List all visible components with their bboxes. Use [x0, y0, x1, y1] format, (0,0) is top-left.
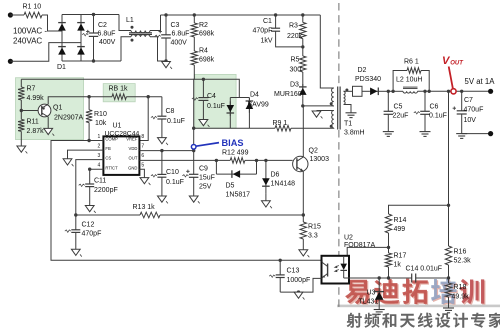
pin3 CS wire: [76, 160, 104, 215]
pin4 RT/CT wire: [90, 169, 104, 184]
ground (R15): [299, 250, 308, 256]
svg-text:L1: L1: [126, 17, 134, 24]
resistor R9: [275, 125, 291, 131]
svg-text:220k: 220k: [287, 33, 303, 40]
capacitor C13: [279, 259, 282, 262]
svg-text:C11: C11: [94, 177, 106, 184]
pin2 FB wire to ground: [68, 150, 104, 159]
bias return wire with R9: [192, 127, 195, 130]
capacitor C11: [85, 183, 94, 185]
dual diode D4 BAV99: [230, 97, 249, 99]
svg-text:R14: R14: [394, 217, 407, 224]
svg-text:5V at 1A: 5V at 1A: [465, 77, 496, 86]
resistor R1: [10, 14, 24, 16]
bottom rail from bridge: [81, 60, 121, 62]
pin7 VDD wire: [139, 150, 193, 152]
svg-text:22uF: 22uF: [393, 112, 409, 119]
watermark line 2: gray CJK text: [347, 313, 362, 328]
ground (C8): [158, 138, 167, 144]
svg-text:R10: R10: [94, 111, 107, 118]
svg-text:D1: D1: [57, 64, 66, 71]
svg-text:3: 3: [98, 153, 101, 159]
svg-text:499: 499: [394, 226, 406, 233]
resistor RB: [87, 95, 90, 98]
svg-text:VDD: VDD: [129, 146, 138, 151]
svg-text:GND: GND: [128, 165, 137, 170]
wire secondary to D2: [344, 90, 353, 92]
svg-text:R15: R15: [308, 224, 321, 231]
bridge diode bottom-right: [80, 44, 82, 58]
ground (D6): [262, 201, 271, 207]
ground (C6): [420, 131, 431, 133]
capacitor C1: [274, 13, 277, 16]
node R7/R11/Q1 base: [20, 100, 22, 119]
capacitor C12: [75, 215, 77, 230]
svg-text:R18: R18: [454, 284, 467, 291]
pin6 OUT wire: [139, 159, 230, 161]
svg-text:C5: C5: [394, 103, 403, 110]
svg-text:OUT: OUT: [450, 60, 464, 66]
bridge diode top-left: [61, 20, 63, 34]
resistor R16: [445, 246, 451, 265]
svg-text:R16: R16: [454, 249, 467, 256]
resistor R2: [193, 13, 196, 16]
svg-text:1N4148: 1N4148: [271, 180, 296, 187]
input terminal bottom: [8, 59, 13, 64]
svg-text:U2: U2: [344, 235, 353, 242]
svg-text:C12: C12: [82, 221, 95, 228]
svg-text:6.8uF: 6.8uF: [172, 31, 190, 38]
resistor R14: [385, 214, 391, 233]
ground (C12): [71, 249, 80, 255]
ground (opto emitter): [294, 292, 303, 298]
capacitor C6: [423, 90, 426, 93]
svg-text:1N5817: 1N5817: [226, 192, 251, 199]
transformer T1 primary winding: [332, 88, 334, 106]
opto emitter return: [280, 278, 321, 292]
green highlight box 3 (C4/D4 bias): [195, 74, 236, 128]
svg-text:0.1uF: 0.1uF: [167, 118, 185, 125]
wire R4 down to VDD node: [193, 65, 196, 145]
pin5 GND wire: [139, 169, 144, 177]
ground (C5): [383, 131, 394, 133]
svg-text:3.3: 3.3: [308, 233, 318, 240]
svg-text:R1 10: R1 10: [23, 4, 42, 11]
svg-text:400V: 400V: [99, 39, 116, 46]
VOUT annotation: [449, 67, 453, 89]
resistor R7: [20, 79, 22, 87]
svg-text:470pF: 470pF: [253, 27, 273, 34]
ground (C10): [158, 196, 167, 202]
wire bottom input: [10, 43, 81, 62]
svg-text:R11: R11: [27, 119, 39, 126]
green highlight box 2 (RB): [103, 84, 135, 102]
transformer core: [337, 87, 339, 130]
svg-text:R6 1: R6 1: [404, 58, 419, 65]
ground (C7/output return): [456, 133, 467, 135]
svg-text:0.1uF: 0.1uF: [166, 179, 184, 186]
svg-text:R3: R3: [289, 23, 298, 30]
top HV rail: [81, 14, 119, 16]
svg-text:RB 1k: RB 1k: [109, 86, 129, 93]
capacitor C14: [411, 274, 413, 283]
svg-text:TL431: TL431: [359, 298, 379, 305]
svg-text:10V: 10V: [464, 117, 477, 124]
svg-text:8: 8: [141, 134, 144, 140]
svg-text:T1: T1: [344, 121, 352, 128]
resistor R17: [385, 253, 391, 267]
resistor R3: [301, 13, 304, 16]
transformer T1 bias winding: [332, 111, 334, 129]
ground (C11): [85, 206, 94, 212]
resistor R18: [445, 283, 451, 297]
opto LED: [343, 257, 345, 264]
diode D3 MUR160: [302, 72, 304, 87]
svg-text:C4: C4: [207, 93, 216, 100]
output terminal +: [488, 89, 493, 94]
svg-text:300: 300: [290, 66, 302, 73]
resistor R11: [18, 119, 24, 131]
ground (secondary): [346, 112, 357, 114]
svg-text:R2: R2: [199, 22, 208, 29]
transformer T1 secondary winding: [344, 91, 346, 104]
capacitor C2: [92, 13, 95, 16]
output return wire: [462, 133, 491, 135]
Q2 collector wire: [302, 106, 304, 157]
svg-text:PDS340: PDS340: [355, 76, 381, 83]
svg-text:R13 1k: R13 1k: [133, 204, 156, 211]
svg-text:CS: CS: [105, 156, 111, 161]
svg-text:4.99k: 4.99k: [27, 95, 45, 102]
ground (C9): [189, 196, 198, 202]
svg-text:25V: 25V: [199, 183, 212, 190]
svg-text:698k: 698k: [199, 57, 215, 64]
resistor R4: [193, 37, 195, 51]
svg-text:2N2907A: 2N2907A: [54, 115, 84, 122]
svg-text:49.9k: 49.9k: [452, 293, 470, 300]
svg-text:470uF: 470uF: [464, 107, 484, 114]
capacitor C9: [189, 173, 199, 175]
capacitor C3: [164, 13, 167, 16]
wire top rail to primary: [320, 15, 334, 88]
shunt regulator U3 TL431: [378, 278, 380, 292]
svg-text:U3: U3: [367, 289, 376, 296]
transistor Q2 13003 (NPN): [293, 156, 308, 171]
capacitor C10: [160, 149, 163, 152]
opto anode wire: [347, 247, 388, 255]
svg-text:FB: FB: [105, 146, 111, 151]
svg-text:Q2: Q2: [309, 147, 318, 154]
Q2 emitter wire: [302, 171, 304, 222]
bridge diode top-right: [80, 20, 82, 34]
node BIAS annotation: [196, 143, 219, 147]
watermark line 1: red CJK text: [346, 281, 370, 305]
green highlight box 1 (Q1 clamp): [16, 78, 84, 140]
svg-text:C2: C2: [98, 22, 107, 29]
svg-text:C9: C9: [199, 165, 208, 172]
svg-text:2.87k: 2.87k: [27, 128, 45, 135]
resistor R10: [88, 97, 90, 110]
ground (bias winding): [312, 111, 321, 117]
diode bridge D1 rails: [61, 15, 63, 62]
svg-text:C10: C10: [166, 169, 179, 176]
svg-text:BAV99: BAV99: [248, 101, 269, 108]
capacitor C5: [387, 91, 389, 111]
capacitor C8: [161, 97, 163, 117]
svg-text:D2: D2: [358, 67, 367, 74]
svg-text:OUT: OUT: [129, 156, 138, 161]
isolation boundary dashed line: [338, 3, 340, 86]
svg-text:R7: R7: [27, 86, 36, 93]
svg-text:0.1uF: 0.1uF: [207, 103, 225, 110]
svg-text:10k: 10k: [95, 120, 107, 127]
svg-text:COMP: COMP: [105, 137, 118, 142]
svg-text:R9 1: R9 1: [273, 120, 288, 127]
ground (FB): [63, 159, 72, 165]
svg-text:2: 2: [98, 144, 101, 150]
svg-text:240VAC: 240VAC: [13, 37, 42, 46]
svg-text:C6: C6: [430, 103, 439, 110]
input terminal top: [8, 12, 13, 17]
Q1 emitter wire up: [48, 97, 89, 105]
ground (Q1): [44, 128, 53, 134]
svg-text:5: 5: [141, 163, 144, 169]
svg-text:D5: D5: [226, 183, 235, 190]
wire to R14: [389, 205, 449, 214]
watermark divider band: [337, 305, 500, 308]
svg-text:0.1uF: 0.1uF: [429, 112, 447, 119]
optocoupler U2 FOD817A: [322, 256, 350, 284]
svg-text:698k: 698k: [199, 31, 215, 38]
svg-text:BIAS: BIAS: [222, 138, 244, 148]
switch node wire: [301, 104, 304, 107]
svg-text:C3: C3: [171, 22, 180, 29]
svg-text:Q1: Q1: [53, 105, 62, 112]
diode D5 1N5817: [215, 160, 217, 174]
resistor R12: [230, 158, 245, 164]
svg-text:13003: 13003: [310, 156, 330, 163]
resistor R13: [140, 212, 160, 218]
svg-text:C7: C7: [464, 97, 473, 104]
svg-text:1kV: 1kV: [261, 37, 273, 44]
wire bias winding top to ground: [317, 110, 334, 112]
capacitor C7: [460, 90, 463, 93]
svg-text:C14 0.01uF: C14 0.01uF: [406, 265, 443, 272]
svg-text:6: 6: [141, 153, 144, 159]
svg-text:2200pF: 2200pF: [94, 187, 118, 194]
feedback sense vertical: [447, 90, 450, 93]
svg-text:U1: U1: [113, 122, 122, 129]
svg-text:3.8mH: 3.8mH: [344, 130, 365, 137]
svg-text:VREF: VREF: [126, 137, 138, 142]
svg-text:C8: C8: [166, 108, 175, 115]
svg-text:100VAC -: 100VAC -: [13, 26, 47, 35]
svg-text:4: 4: [98, 163, 101, 169]
svg-text:D3: D3: [290, 82, 299, 89]
svg-text:52.3k: 52.3k: [454, 258, 472, 265]
svg-text:C13: C13: [287, 268, 300, 275]
Q1 collector to ground: [47, 117, 49, 129]
svg-text:470pF: 470pF: [82, 231, 102, 238]
svg-text:D6: D6: [271, 171, 280, 178]
svg-text:C1: C1: [263, 18, 272, 25]
svg-text:R17: R17: [394, 253, 407, 260]
svg-text:FOD817A: FOD817A: [344, 242, 375, 249]
wire R1 to bridge: [42, 15, 62, 31]
svg-text:R4: R4: [199, 48, 208, 55]
inductor L2: [403, 91, 418, 93]
ground (TL431): [374, 309, 385, 311]
output terminal -: [488, 131, 493, 136]
resistor R5: [302, 47, 304, 56]
diode D2 PDS340: [369, 90, 378, 92]
wire secondary bottom to ground: [344, 105, 352, 113]
svg-text:6.8uF: 6.8uF: [98, 30, 116, 37]
svg-text:D4: D4: [250, 92, 259, 99]
opto transistor: [327, 264, 329, 277]
svg-text:1: 1: [98, 134, 101, 140]
resistor R15: [300, 222, 306, 239]
current sense wire with R13: [76, 214, 140, 216]
svg-text:15uF: 15uF: [199, 174, 215, 181]
svg-text:R12 499: R12 499: [222, 149, 249, 156]
bridge diode bottom-left: [61, 44, 63, 58]
resistor R6 parallel loop: [391, 90, 394, 93]
svg-text:RT/CT: RT/CT: [105, 165, 118, 170]
wire VREF to C8 node: [139, 97, 148, 141]
svg-text:R5: R5: [291, 57, 300, 64]
ground (R11): [17, 146, 26, 152]
capacitor C4: [202, 78, 205, 81]
bias rail wire: [21, 79, 239, 97]
svg-text:1000pF: 1000pF: [287, 277, 311, 284]
ground (C4): [199, 120, 208, 126]
svg-text:7: 7: [141, 144, 144, 150]
opto cathode wire: [349, 277, 412, 279]
diode D6 1N4148: [265, 160, 267, 170]
ground (C3): [162, 62, 171, 68]
svg-text:MUR160: MUR160: [274, 91, 302, 98]
transistor Q1 2N2907A (PNP): [21, 110, 38, 112]
op-amp U1 UCC28C44 PWM controller: [103, 136, 139, 175]
svg-text:1k: 1k: [394, 262, 402, 269]
ground (R18): [443, 307, 454, 309]
svg-text:400V: 400V: [171, 40, 188, 47]
output rail: [387, 90, 390, 93]
ferrite bead (D2 input square): [353, 86, 363, 96]
ground (U1 GND): [140, 178, 149, 184]
pin1 COMP wire and feedback loop: [51, 141, 322, 261]
svg-text:L2 10uH: L2 10uH: [396, 77, 422, 84]
